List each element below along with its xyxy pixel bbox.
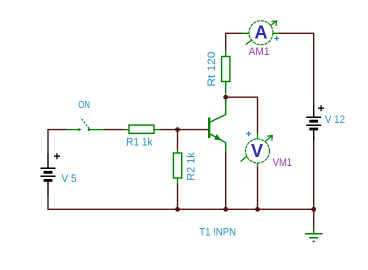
battery V12 leads xyxy=(313,106,315,141)
ground xyxy=(305,227,323,242)
battery V12 plates xyxy=(306,117,321,125)
transistor T1 collector lead xyxy=(210,100,226,123)
ammeter AM1 arrow head xyxy=(272,21,277,26)
voltmeter VM1 circle xyxy=(246,139,270,163)
switch SW contact arrow xyxy=(79,128,82,131)
voltmeter VM1 plus sign xyxy=(246,131,251,136)
svg-text:A: A xyxy=(255,23,268,43)
switch SW blade (open lever, dotted) xyxy=(81,118,89,129)
voltmeter VM1 arrow shaft xyxy=(241,136,273,162)
svg-text:R1 1k: R1 1k xyxy=(126,137,153,149)
battery V5 plus sign xyxy=(54,153,60,159)
battery V5 plates xyxy=(41,168,56,176)
svg-text:ON: ON xyxy=(78,100,90,111)
wire: battery V5 to bottom rail and bottom rail xyxy=(48,196,314,210)
svg-text:V 12: V 12 xyxy=(325,114,345,126)
wire: ground stub from bottom rail xyxy=(313,209,315,226)
wire: left vertical down to battery V5 xyxy=(47,129,49,154)
resistor Rt body xyxy=(222,57,230,82)
wire: switch to R1 xyxy=(104,129,125,131)
switch SW right lead xyxy=(90,129,104,131)
svg-text:V: V xyxy=(251,141,263,161)
transistor T1 emitter arrow xyxy=(214,134,221,140)
svg-text:Rt 120: Rt 120 xyxy=(206,52,218,87)
ammeter AM1 leads xyxy=(242,32,279,34)
svg-text:VM1: VM1 xyxy=(273,157,292,169)
wire: collector junction to voltmeter top xyxy=(226,97,258,133)
resistor R1 body xyxy=(129,125,154,133)
resistor Rt leads xyxy=(225,51,227,95)
ammeter AM1 arrow shaft xyxy=(246,21,277,45)
junction dot: R2 bottom xyxy=(175,207,180,212)
svg-text:R2 1k: R2 1k xyxy=(185,152,197,181)
switch SW right contact dot xyxy=(88,128,91,131)
battery V5 leads xyxy=(47,154,49,196)
wire: emitter vertical to bottom rail xyxy=(225,152,227,210)
junction dot: ground node xyxy=(311,207,316,212)
wire: voltmeter bottom to bottom rail xyxy=(257,167,259,210)
resistor R1 leads xyxy=(125,129,161,131)
junction dot: base node xyxy=(175,127,180,132)
junction dot: collector node xyxy=(223,95,228,100)
resistor R2 body xyxy=(173,153,181,178)
ammeter AM1 plus sign xyxy=(274,36,279,41)
wire: R2 bottom to bottom rail xyxy=(177,184,179,210)
switch SW (ON) left lead xyxy=(67,129,79,131)
wire: top corner above Rt to ammeter left xyxy=(226,33,242,50)
junction dot: emitter bottom xyxy=(223,207,228,212)
resistor R2 leads xyxy=(177,150,179,184)
transistor T1 base bar xyxy=(208,118,210,139)
wire: ammeter right to right column top xyxy=(279,33,314,105)
wire: base junction down to R2 xyxy=(177,130,179,150)
wire: R1 to base junction to transistor base xyxy=(161,129,209,131)
voltmeter VM1 arrow head xyxy=(267,136,272,141)
ammeter AM1 circle xyxy=(249,21,273,45)
wire: battery V12 bottom to bottom rail xyxy=(313,140,315,209)
voltmeter VM1 leads xyxy=(257,133,259,167)
junction dot: voltmeter bottom xyxy=(255,207,260,212)
battery V12 plus sign xyxy=(318,105,324,111)
svg-text:AM1: AM1 xyxy=(249,46,270,58)
svg-text:V 5: V 5 xyxy=(62,173,77,185)
svg-text:T1 !NPN: T1 !NPN xyxy=(199,226,236,238)
transistor T1 emitter lead xyxy=(210,134,226,152)
wire: main base row left segment to switch xyxy=(48,129,67,131)
